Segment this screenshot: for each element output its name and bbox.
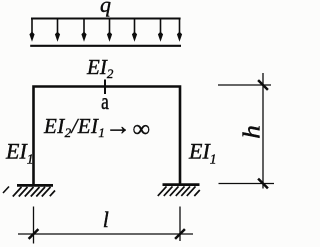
- svg-text:l: l: [103, 207, 109, 232]
- svg-text:a: a: [101, 90, 109, 115]
- svg-text:→: →: [105, 112, 131, 141]
- svg-text:∞: ∞: [133, 117, 150, 143]
- svg-text:q: q: [100, 0, 111, 17]
- svg-text:h: h: [238, 125, 265, 139]
- svg-text:EI2/EI1: EI2/EI1: [43, 114, 105, 140]
